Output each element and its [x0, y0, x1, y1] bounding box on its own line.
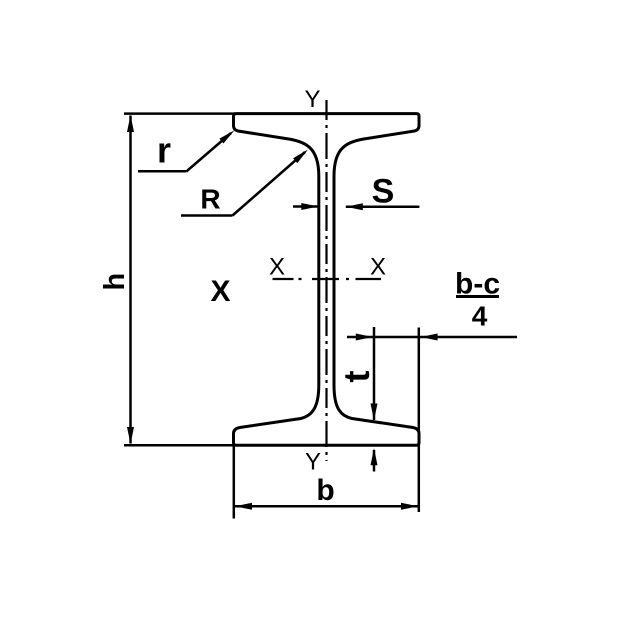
svg-text:X: X: [370, 254, 386, 281]
dimension b: right arrowhead: [401, 503, 418, 510]
leader R: underline: [181, 214, 233, 217]
leader R: diagonal: [233, 152, 306, 216]
dimension b: right extension line (long, shared with b-c/4): [418, 328, 421, 513]
dimension S: right segment: [346, 206, 420, 209]
svg-text:h: h: [99, 273, 131, 291]
fraction bar: [456, 295, 499, 298]
dimension t: lower leg: [373, 450, 376, 472]
svg-text:4: 4: [472, 301, 488, 332]
leader r: underline: [138, 170, 186, 173]
dimension b-c/4: left arrowhead: [356, 334, 373, 341]
svg-text:R: R: [200, 184, 220, 215]
svg-text:b: b: [316, 474, 334, 507]
svg-text:S: S: [372, 173, 395, 211]
I-beam profile outline: [234, 114, 420, 446]
vertical centerline Y-Y: [325, 100, 327, 461]
dimension b: left arrowhead: [235, 503, 252, 510]
svg-text:Y: Y: [304, 86, 320, 113]
dimension b: dimension line: [235, 505, 418, 508]
leader r: arrowhead: [219, 130, 234, 143]
dimension b: left extension line: [233, 446, 236, 519]
dimension h: bottom arrowhead: [127, 427, 134, 444]
svg-text:X: X: [210, 275, 230, 308]
dimension h: top arrowhead: [127, 115, 134, 132]
dimension S: right arrowhead: [346, 203, 363, 210]
dimension h: dimension line: [129, 116, 132, 444]
dimension S: left segment: [293, 205, 318, 208]
svg-text:X: X: [269, 254, 285, 281]
leader R: arrowhead: [293, 150, 308, 164]
dimension b-c/4: right arrowhead: [421, 334, 438, 341]
horizontal centerline X-X: [273, 278, 382, 280]
svg-text:r: r: [157, 130, 171, 171]
svg-text:Y: Y: [305, 449, 321, 476]
leader r: diagonal: [186, 133, 231, 172]
dimension h: top extension line: [124, 112, 236, 115]
dimension b-c/4 and t: shared vertical line at x=374: [373, 327, 376, 420]
dimension t: upper arrowhead (points down at flange surface): [371, 404, 378, 421]
dimension S: left arrowhead: [301, 203, 318, 210]
dimension b-c/4: dimension line: [347, 336, 517, 339]
dimension h: bottom extension line: [124, 444, 236, 447]
dimension t: lower arrowhead (points up at flange bottom): [371, 448, 378, 465]
svg-text:t: t: [336, 371, 377, 383]
